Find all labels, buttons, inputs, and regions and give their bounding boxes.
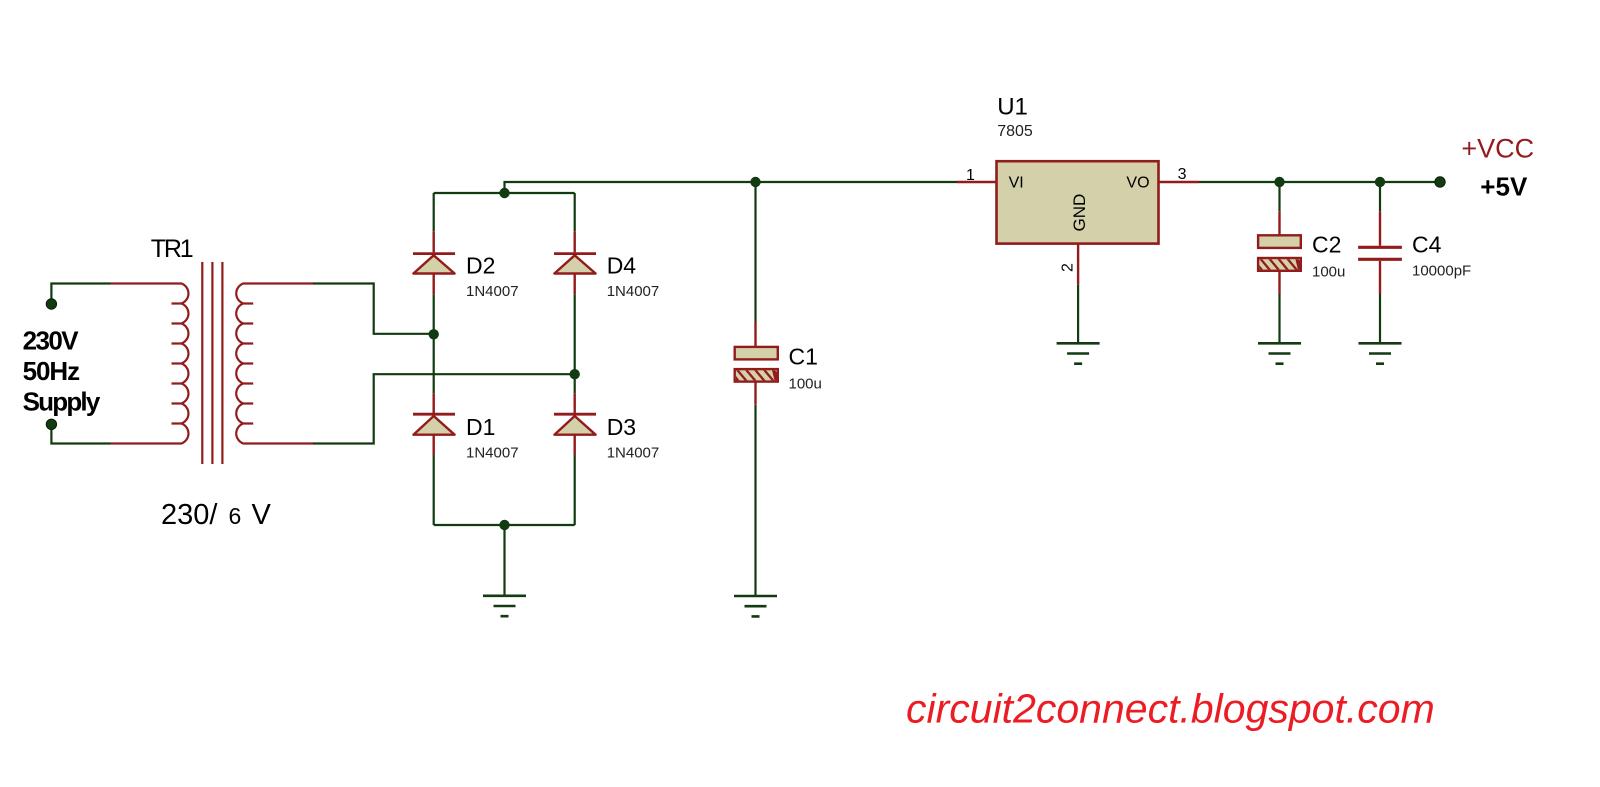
- svg-text:10000pF: 10000pF: [1412, 262, 1471, 279]
- node C2 rail junction: [1274, 177, 1284, 187]
- svg-text:230V: 230V: [23, 325, 80, 355]
- node C1 rail junction: [750, 177, 760, 187]
- svg-text:V: V: [252, 499, 272, 531]
- ground C2: [1258, 343, 1301, 363]
- svg-text:100u: 100u: [1312, 264, 1345, 281]
- svg-text:GND: GND: [1070, 194, 1089, 232]
- svg-text:50Hz: 50Hz: [23, 356, 81, 386]
- ground U1: [1057, 343, 1100, 363]
- svg-text:1: 1: [966, 167, 975, 184]
- svg-text:D4: D4: [607, 253, 637, 279]
- svg-text:1N4007: 1N4007: [466, 283, 519, 300]
- wire secondary bottom to bridge: [313, 374, 575, 443]
- wire U1 pin2 to ground: [1077, 284, 1079, 343]
- svg-text:100u: 100u: [789, 376, 822, 393]
- node bridge bottom junction: [499, 520, 509, 530]
- svg-text:U1: U1: [997, 93, 1028, 120]
- svg-text:3: 3: [1178, 166, 1187, 183]
- svg-text:2: 2: [1060, 263, 1077, 272]
- wire secondary top to bridge: [313, 284, 434, 334]
- diode D1: [413, 393, 519, 461]
- svg-text:Supply: Supply: [23, 387, 101, 417]
- svg-text:230/: 230/: [161, 499, 218, 531]
- U1 pin 2: [1077, 244, 1079, 285]
- svg-text:7805: 7805: [997, 123, 1033, 140]
- node supply top terminal: [46, 299, 56, 309]
- wire C1 bottom to ground: [754, 405, 756, 596]
- diode D2: [413, 231, 519, 300]
- wire C4 drop: [1379, 182, 1381, 343]
- diode D4: [554, 231, 659, 300]
- wires (green): [51, 182, 1440, 596]
- diode D3: [554, 393, 659, 461]
- wire bridge top bar: [434, 192, 575, 194]
- terminal dots: [46, 177, 1445, 430]
- wire C2 drop: [1278, 182, 1280, 343]
- capacitor C1: [735, 322, 822, 405]
- svg-text:+VCC: +VCC: [1461, 134, 1534, 164]
- wire supply top: [51, 284, 110, 305]
- node supply bottom terminal: [46, 419, 56, 429]
- svg-text:D1: D1: [466, 414, 495, 440]
- wire main rail to U1: [505, 182, 958, 193]
- node C4 rail junction: [1375, 177, 1385, 187]
- wire supply bottom: [51, 424, 110, 443]
- svg-text:+5V: +5V: [1480, 171, 1528, 201]
- svg-text:1N4007: 1N4007: [466, 444, 519, 461]
- svg-text:D3: D3: [607, 414, 636, 440]
- svg-text:1N4007: 1N4007: [607, 444, 660, 461]
- svg-text:C4: C4: [1412, 232, 1442, 258]
- TR1 secondary winding: [236, 284, 313, 444]
- wire bridge right column: [574, 193, 576, 525]
- ground C4: [1359, 343, 1402, 363]
- svg-text:VO: VO: [1126, 175, 1149, 192]
- wire bridge bottom bar: [434, 524, 575, 526]
- wire bridge ground stub: [503, 525, 505, 596]
- node bridge right junction: [570, 369, 580, 379]
- capacitor C4: [1358, 211, 1471, 294]
- TR1 primary winding: [110, 284, 188, 444]
- svg-text:D2: D2: [466, 253, 495, 279]
- wire output rail: [1199, 181, 1440, 183]
- ground bridge: [483, 596, 526, 616]
- U1 pin 1: [957, 181, 997, 183]
- capacitor C2: [1258, 211, 1345, 294]
- svg-text:1N4007: 1N4007: [607, 283, 660, 300]
- wire C1 top drop: [754, 182, 756, 322]
- svg-text:circuit2connect.blogspot.com: circuit2connect.blogspot.com: [906, 686, 1435, 732]
- node +5V output terminal: [1435, 177, 1445, 187]
- svg-text:C2: C2: [1312, 232, 1341, 258]
- regulator U1 7805: [957, 93, 1199, 284]
- U1 pin 3: [1159, 181, 1200, 183]
- node bridge top junction: [499, 188, 509, 198]
- svg-text:C1: C1: [789, 344, 818, 370]
- wire bridge left column: [433, 193, 435, 525]
- ground C1: [734, 596, 777, 616]
- svg-text:6: 6: [229, 503, 242, 529]
- transformer TR1: [110, 235, 313, 531]
- TR1 core: [202, 262, 222, 464]
- node bridge left junction: [429, 329, 439, 339]
- svg-text:TR1: TR1: [151, 235, 194, 263]
- svg-text:VI: VI: [1009, 175, 1024, 192]
